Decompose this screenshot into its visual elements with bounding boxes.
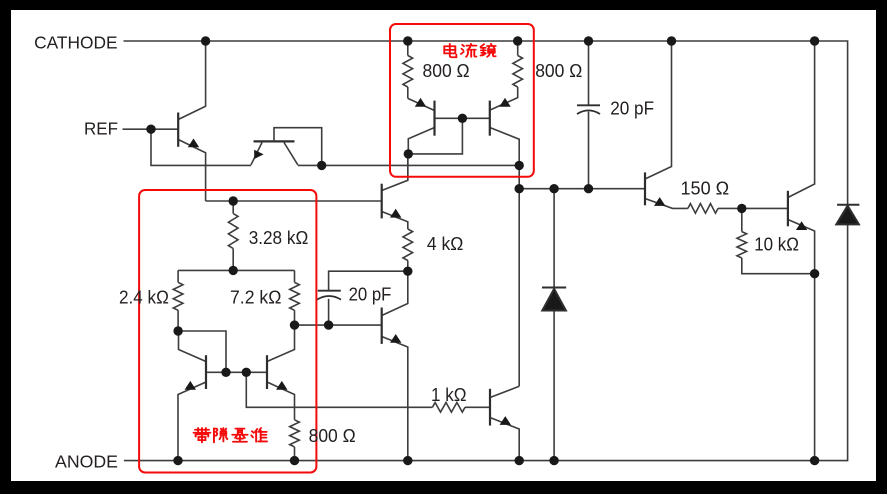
- wire Q7 collector: [645, 41, 672, 179]
- annotation box current mirror: [390, 24, 534, 177]
- wire REF lead: [123, 128, 179, 130]
- resistor R6 800 ohm (bandgap): [290, 420, 300, 447]
- wire C1 leads: [588, 41, 590, 189]
- wire Q11 emitter: [490, 418, 519, 461]
- svg-text:10 kΩ: 10 kΩ: [754, 235, 799, 255]
- wire mirror output column: [518, 165, 520, 386]
- annotation text current mirror (dian liu jing): [444, 44, 495, 57]
- svg-text:800 Ω: 800 Ω: [535, 61, 582, 81]
- wire bandgap divider top: [178, 269, 294, 271]
- transistor Q6 bar: [266, 355, 268, 389]
- transistor Q10 bar: [381, 308, 383, 344]
- wire R2 800 top lead: [517, 41, 519, 56]
- wire Q3 base: [435, 117, 463, 119]
- wire Q8 base: [742, 207, 788, 209]
- svg-text:4 kΩ: 4 kΩ: [427, 234, 464, 254]
- svg-text:20 pF: 20 pF: [349, 285, 392, 305]
- resistor R1 800 ohm (mirror left): [403, 56, 413, 88]
- junction bottom rail / Q8 emitter: [810, 456, 819, 465]
- svg-text:CATHODE: CATHODE: [34, 33, 118, 53]
- svg-text:800 Ω: 800 Ω: [309, 426, 356, 446]
- wire Q4 emitter: [490, 87, 518, 110]
- wire Q5 emitter: [178, 382, 206, 461]
- transistor Q5 bar: [205, 355, 207, 389]
- wire mirror to Q9 collector: [407, 154, 409, 180]
- svg-text:800 Ω: 800 Ω: [423, 61, 470, 81]
- diode D2: [837, 204, 859, 206]
- transistor Q1 bar: [177, 113, 179, 147]
- junction Q5 base: [221, 368, 230, 377]
- junction top rail / R2: [513, 36, 522, 45]
- junction Q8 emitter / R10: [810, 269, 819, 278]
- resistor R9 150 ohm: [688, 204, 718, 214]
- arrow Q5 emitter: [185, 381, 196, 390]
- svg-text:3.28 kΩ: 3.28 kΩ: [249, 228, 309, 248]
- resistor R7 1k: [432, 403, 465, 413]
- wire Q1 emitter: [178, 140, 205, 202]
- wire R8 4k bottom lead: [407, 261, 409, 272]
- wire cathode top rail: [124, 41, 848, 205]
- wire C2 bottom lead: [328, 299, 330, 325]
- wire Q5 collector: [179, 331, 207, 362]
- junction Q3 collector tie: [404, 149, 413, 158]
- wire Q3 base-collector tie: [408, 118, 462, 154]
- wire bandgap top node: [206, 200, 382, 202]
- diode D1: [542, 287, 566, 289]
- svg-text:ANODE: ANODE: [55, 451, 118, 471]
- junction bottom rail / Q5 emitter: [173, 456, 182, 465]
- wire Q9 emitter: [382, 212, 408, 230]
- annotation box bandgap: [139, 190, 316, 473]
- arrow Q1 emitter: [188, 139, 199, 148]
- wire D1 leads: [553, 189, 555, 461]
- wire Q6 collector: [267, 325, 295, 361]
- junction top rail / R1: [403, 36, 412, 45]
- junction gain bus / C1: [584, 184, 593, 193]
- junction top rail / Q1 collector: [201, 36, 210, 45]
- arrow Q11 emitter: [500, 416, 511, 425]
- svg-text:REF: REF: [84, 118, 118, 138]
- wire R7 1k to Q11 base: [465, 406, 490, 408]
- junction R4 bottom / Q5 collector: [173, 326, 182, 335]
- wire Q3 emitter diagonal: [408, 98, 435, 110]
- junction Q6 base: [242, 368, 251, 377]
- junction top rail / Q8 collector: [810, 36, 819, 45]
- transistor Q2 bar (lateral PNP): [254, 140, 295, 142]
- transistor Q4 bar: [489, 101, 491, 136]
- arrow Q6 emitter: [276, 381, 287, 390]
- junction mirror output / node A: [515, 161, 524, 170]
- wire bandgap output to R7 1k: [246, 372, 432, 407]
- resistor R5 7.2k: [290, 282, 300, 310]
- wire Q2 emitter diagonal: [251, 143, 262, 165]
- wire Q10 base node: [295, 324, 382, 326]
- wire R5 7.2k leads: [294, 270, 296, 325]
- junction Q8 base / R10: [737, 204, 746, 213]
- junction R5 bottom / Q6 collector: [290, 320, 299, 329]
- junction C2 bottom / Q10 base: [324, 320, 333, 329]
- wire Q3 collector: [408, 128, 434, 154]
- wire Q5 collector-base tie: [178, 331, 226, 372]
- arrow Q9 emitter: [390, 209, 401, 218]
- annotation text bandgap reference (dai xi ji zhun): [194, 428, 267, 442]
- wire Q7 emitter to R9 150: [645, 199, 688, 209]
- wire base link Q5-Q6: [226, 371, 267, 373]
- transistor Q11 bar: [489, 389, 491, 426]
- wire Q8 emitter: [788, 220, 815, 461]
- svg-text:7.2 kΩ: 7.2 kΩ: [230, 287, 281, 307]
- wire R4 2.4k leads: [177, 270, 179, 331]
- resistor R8 4k: [403, 229, 413, 261]
- wire Q2 base loop: [274, 128, 322, 166]
- capacitor C1 20pF: [577, 104, 600, 106]
- wire R3 3.28k leads: [232, 201, 234, 270]
- wire Q6 emitter: [267, 382, 295, 420]
- wire Q2 collector diagonal: [284, 143, 298, 165]
- arrow Q7 emitter: [654, 197, 665, 206]
- resistor R3 3.28k: [228, 214, 238, 249]
- wire Q8 collector: [788, 41, 815, 198]
- svg-text:2.4 kΩ: 2.4 kΩ: [119, 287, 169, 307]
- wire anode bottom rail: [124, 224, 848, 460]
- svg-text:1 kΩ: 1 kΩ: [431, 385, 467, 405]
- junction divider top / R3 bottom: [229, 266, 238, 275]
- junction bandgap top / R3: [229, 196, 238, 205]
- wire R10 10k leads: [742, 208, 815, 273]
- arrow Q2 emitter: [254, 150, 263, 159]
- svg-text:20 pF: 20 pF: [610, 99, 654, 119]
- resistor R10 10k: [737, 232, 747, 258]
- junction REF node: [146, 125, 155, 134]
- wire Q11 collector diagonal: [490, 386, 519, 397]
- arrow Q8 emitter: [796, 221, 807, 230]
- junction R8 bottom / Q10 collector: [403, 267, 412, 276]
- transistor Q3 bar: [433, 101, 435, 136]
- wire REF node down to lateral PNP emitter: [151, 129, 251, 165]
- arrow Q3 emitter: [415, 98, 426, 107]
- wire Q4 collector: [490, 128, 519, 166]
- junction bottom rail / Q11 emitter: [515, 456, 524, 465]
- capacitor C2 20pF: [318, 290, 341, 292]
- wire node A (lateral PNP collector to mirror output bus): [298, 164, 519, 166]
- transistor Q9 bar: [381, 184, 383, 219]
- resistor R2 800 ohm (mirror right): [513, 56, 523, 88]
- wire Q9 collector: [382, 154, 408, 191]
- resistor R4 2.4k: [173, 282, 183, 310]
- wire Q5 base: [206, 371, 226, 373]
- wire gain node bus: [519, 188, 645, 190]
- wire R9 to base node: [718, 207, 742, 209]
- wire R1 800 leads: [407, 41, 409, 98]
- wire Q1 collector: [178, 41, 205, 120]
- transistor Q7 bar: [644, 172, 646, 205]
- arrow Q4 emitter: [499, 98, 510, 107]
- junction gain bus / D1: [549, 184, 558, 193]
- junction top rail / Q7 collector: [667, 36, 676, 45]
- wire compensation node: [329, 271, 408, 291]
- wire Q10 collector: [382, 271, 408, 315]
- wire Q10 emitter: [382, 337, 408, 461]
- junction mirror bases: [458, 114, 467, 123]
- junction Q2 collector node: [317, 161, 326, 170]
- transistor Q8 bar: [787, 191, 789, 227]
- junction top rail / C1: [584, 36, 593, 45]
- wire Q4 base: [462, 117, 489, 119]
- wire R6 800 bottom lead: [294, 447, 296, 461]
- junction gain bus / mirror column: [515, 184, 524, 193]
- junction bottom rail / D1: [549, 456, 558, 465]
- junction bottom rail / Q10 emitter: [403, 456, 412, 465]
- junction bottom rail / R6: [290, 456, 299, 465]
- svg-text:150 Ω: 150 Ω: [681, 179, 730, 199]
- arrow Q10 emitter: [390, 334, 401, 343]
